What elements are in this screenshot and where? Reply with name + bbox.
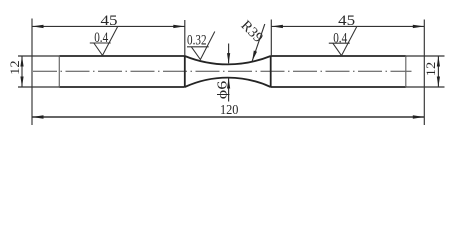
svg-text:120: 120 — [220, 103, 239, 118]
svg-text:0.32: 0.32 — [187, 32, 207, 48]
svg-text:45: 45 — [338, 13, 355, 29]
svg-text:12: 12 — [423, 62, 438, 77]
svg-text:12: 12 — [7, 60, 22, 75]
svg-text:45: 45 — [101, 13, 118, 29]
svg-text:0.4: 0.4 — [94, 30, 109, 46]
svg-text:0.4: 0.4 — [333, 30, 348, 46]
svg-text:ϕ6: ϕ6 — [216, 81, 231, 100]
